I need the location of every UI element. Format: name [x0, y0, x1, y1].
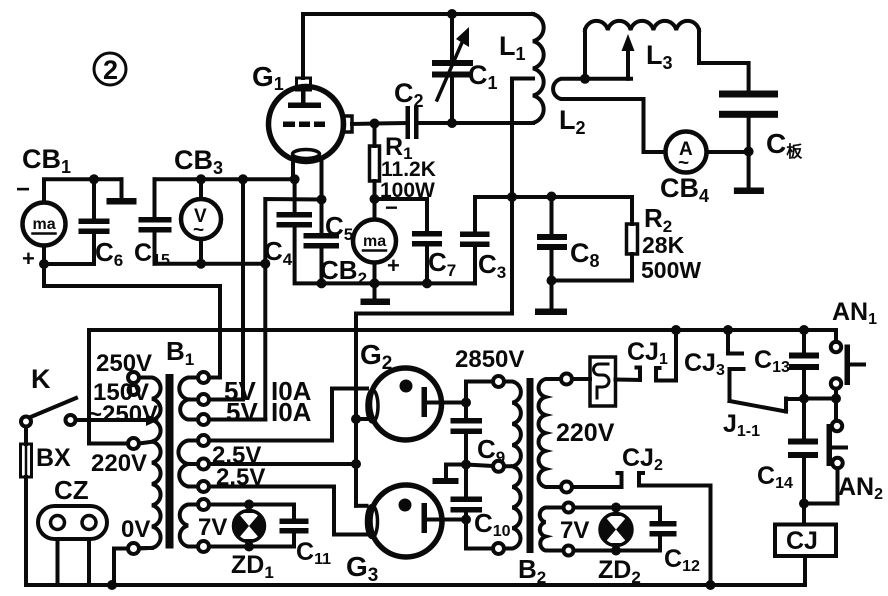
tube G3 cathode bar	[422, 503, 428, 533]
wire CJ2 from B2 primary bottom	[572, 473, 622, 487]
node CJ3 top bus	[723, 325, 733, 335]
tube G2 cathode bar	[422, 387, 428, 417]
tube G3 filament	[367, 506, 378, 538]
node C8 bottom	[547, 276, 557, 286]
wire L3 right end to plate cap	[699, 30, 749, 91]
tube G3 anode dot	[399, 499, 412, 512]
wire 5V bottom tap up	[209, 418, 265, 422]
fuse BX	[21, 427, 32, 586]
node C13 bottom	[799, 394, 809, 404]
capacitor C11	[280, 519, 309, 534]
node ZD2 top	[611, 503, 621, 513]
capacitor C4	[277, 179, 322, 283]
ground below plate cap	[734, 188, 764, 195]
wire tap bar	[585, 77, 631, 81]
wire HV top bus C3 to R2	[475, 195, 632, 199]
ground B2 mid	[433, 465, 467, 485]
wire filament feed to B1 5V mid tap	[241, 179, 245, 399]
button AN2	[804, 399, 846, 504]
contact CJ3	[728, 330, 744, 401]
svg-text:28K: 28K	[642, 232, 685, 258]
node ZD2 bottom	[611, 546, 621, 556]
node CJ2 bottom bus	[706, 580, 716, 590]
node plate cap bottom	[744, 147, 754, 157]
stabilizer fuse element	[572, 357, 640, 406]
node CJ1 top bus	[671, 325, 681, 335]
wire L1 tap HV feed	[356, 79, 533, 506]
lamp ZD1	[234, 505, 265, 547]
node ZD1 bottom	[244, 542, 254, 552]
wire C1 to L1 bottom	[452, 121, 533, 125]
contact CJ1	[637, 330, 677, 381]
svg-text:ma: ma	[33, 216, 56, 233]
node ZD1 top	[244, 500, 254, 510]
node junction C1 top	[447, 9, 457, 19]
tube G1 envelope	[269, 87, 344, 162]
wire CB3 top bus	[155, 177, 295, 181]
capacitor C15	[139, 179, 172, 263]
capacitor C-plate	[719, 91, 778, 118]
meter V CB3	[181, 179, 221, 263]
relay coil CJ	[775, 504, 836, 586]
wire 0V tap stub	[139, 546, 152, 550]
terminal 250V tap	[128, 372, 139, 383]
transformer B1 primary winding	[139, 378, 161, 549]
svg-text:250V: 250V	[96, 350, 152, 377]
transformer B1 secondary 7V winding	[180, 505, 198, 547]
svg-text:~: ~	[678, 153, 689, 174]
wire CB1 bottom	[44, 262, 94, 266]
capacitor C3	[460, 197, 490, 283]
wire G3 cathode out	[427, 518, 466, 522]
capacitor C8	[537, 197, 567, 281]
wire grid to node	[352, 122, 375, 127]
ground below C8	[535, 281, 567, 316]
figure number 2 badge	[94, 53, 126, 85]
svg-text:2850V: 2850V	[455, 346, 524, 373]
terminal 2.5V taps	[198, 435, 209, 446]
svg-text:2: 2	[103, 55, 118, 85]
wire B2 7V bottom to C12	[574, 537, 661, 551]
node G3 cathode junction	[461, 515, 471, 525]
node V meter bottom	[196, 259, 206, 269]
wire B2 7V top to C12	[574, 508, 661, 522]
arrow 250V adjustable tap	[146, 414, 159, 426]
node C7 bottom	[422, 278, 432, 288]
svg-text:ma: ma	[363, 233, 386, 250]
wire 5V top tap stub	[209, 376, 220, 380]
tube G1 base leads	[293, 158, 322, 200]
node B2 mid tap	[461, 460, 471, 470]
wire bottom AC bus	[26, 583, 805, 587]
wire 5V mid tap up	[209, 398, 243, 402]
capacitor C7	[412, 231, 442, 247]
terminal B2 primary taps	[561, 374, 572, 385]
inductor L3	[585, 21, 699, 30]
capacitor C9	[451, 403, 483, 465]
capacitor C6	[79, 179, 110, 264]
capacitor C12	[650, 521, 677, 537]
node R1 bottom	[370, 194, 380, 204]
terminal B2 HV taps	[493, 376, 504, 387]
terminal B2 7V taps	[564, 503, 574, 513]
svg-text:220V: 220V	[91, 450, 147, 477]
wire top: anode top-cap to tank	[303, 14, 533, 78]
wire 0V tap	[114, 549, 128, 586]
svg-text:~250V: ~250V	[88, 401, 158, 428]
wire 2.5V mid tap to HV node	[209, 462, 356, 466]
transformer B1 secondary 2.5V windings	[178, 441, 198, 487]
meter CB1	[23, 179, 122, 264]
svg-text:CZ: CZ	[54, 475, 89, 505]
node CB2 bottom	[370, 278, 380, 288]
node C5 top	[317, 195, 327, 205]
tube G1 top cap	[297, 78, 311, 90]
svg-text:CJ: CJ	[786, 527, 818, 555]
transformer B1 secondary 5V windings	[179, 378, 198, 420]
tube G1 grid dashes	[283, 122, 325, 128]
ground stub top right of CB1	[107, 179, 137, 204]
node CB1 bottom	[39, 259, 49, 269]
button AN1	[831, 330, 864, 399]
svg-text:11.2K: 11.2K	[381, 158, 436, 181]
inductor L2 single turn loop	[553, 79, 643, 152]
wire mid tap	[466, 465, 493, 467]
node C4 top / G1 base	[290, 174, 300, 184]
wire 2.5V top tap to G2 filament	[209, 389, 367, 441]
node G2 filament bottom	[351, 414, 361, 424]
svg-text:500W: 500W	[641, 257, 701, 283]
svg-text:7V: 7V	[198, 514, 227, 541]
wire R1 node to C7	[375, 199, 428, 231]
svg-text:220V: 220V	[556, 419, 615, 447]
node C1 bottom	[447, 118, 457, 128]
tube G2 filament	[367, 390, 378, 422]
capacitor C5	[304, 200, 340, 284]
wire AC left edge to 220V tap	[89, 330, 128, 444]
switch arm J1-1	[730, 399, 805, 412]
tube G1 grid side cap	[343, 116, 353, 132]
svg-text:−: −	[16, 176, 30, 203]
node 0V junction bottom	[107, 580, 117, 590]
node CB3 top filament feed	[238, 174, 248, 184]
svg-text:+: +	[387, 253, 400, 278]
wire G1 filament right to CB3 lower bus	[265, 199, 321, 420]
resistor R2	[552, 197, 638, 281]
terminal 0V tap	[128, 543, 139, 554]
switch K	[21, 398, 148, 427]
node C6 top	[89, 174, 99, 184]
node L3/L2 junction	[580, 74, 590, 84]
wire 220V tap stub	[139, 442, 152, 444]
transformer B2 HV secondary winding	[504, 382, 521, 549]
contact CJ2 right	[639, 473, 711, 585]
node HV vertical junction	[507, 192, 517, 202]
svg-text:7V: 7V	[560, 517, 589, 544]
capacitor C14	[788, 399, 818, 504]
wire CB1 to B1 5V top tap	[44, 264, 220, 378]
transformer B2 7V winding	[540, 508, 564, 551]
tube G3 envelope	[370, 485, 442, 557]
capacitor C13	[789, 330, 819, 399]
wire 7V top tap	[209, 505, 294, 519]
tube G2 anode dot	[400, 380, 413, 393]
node AN1 bottom junction	[831, 394, 841, 404]
transformer B2 core	[527, 378, 534, 553]
svg-text:I0A: I0A	[271, 397, 312, 427]
node C8 top	[547, 192, 557, 202]
wire node to C2	[375, 121, 407, 126]
ground below CB2	[361, 283, 391, 305]
wire G2 filament bottom stub	[356, 417, 367, 421]
transformer B1 core	[166, 374, 174, 549]
capacitor C2	[406, 106, 419, 139]
svg-text:+: +	[22, 246, 35, 271]
node CB3 bottom junction	[260, 259, 270, 269]
wire C13 bottom to AN1 bottom	[804, 397, 836, 401]
tube G1 anode bar	[288, 90, 321, 108]
node CB3 top V meter	[196, 174, 206, 184]
terminal 7V taps	[198, 499, 209, 510]
transformer B2 primary 220V winding	[539, 379, 561, 487]
wire L3 left end down	[583, 30, 587, 79]
capacitor C1 variable	[432, 14, 473, 123]
meter CB2	[353, 199, 396, 283]
node CJ coil top	[799, 499, 809, 509]
svg-text:0V: 0V	[121, 516, 150, 543]
terminal 5V taps	[198, 372, 209, 383]
node G2 cathode junction	[461, 398, 471, 408]
wire 2850V tap to G2 cathode	[466, 382, 493, 403]
wire CB2 bottom bus	[322, 281, 476, 285]
lamp ZD2	[600, 508, 632, 551]
wire G2 cathode out	[427, 401, 466, 405]
wire 7V bottom tap	[209, 534, 294, 547]
L3 slider arrow tap	[622, 34, 635, 79]
capacitor C10	[451, 465, 494, 549]
svg-text:BX: BX	[36, 444, 71, 472]
wire G3 filament top stub	[356, 504, 367, 508]
node C5 bottom	[317, 278, 327, 288]
svg-text:5V: 5V	[226, 397, 258, 427]
svg-text:K: K	[31, 364, 51, 394]
plug CZ	[38, 506, 107, 585]
terminal 220V tap	[128, 438, 139, 449]
node grid junction	[370, 119, 380, 129]
node C13 top bus	[799, 325, 809, 335]
wire C2 to C1 node	[419, 121, 453, 125]
tube G1 cathode ellipse	[293, 150, 320, 159]
inductor L1	[533, 14, 544, 123]
wire AC top bus	[89, 328, 836, 332]
tube G2 envelope	[370, 368, 442, 440]
resistor R1	[370, 124, 380, 200]
terminal 150V tap	[129, 385, 139, 395]
meter CB4 ammeter	[644, 132, 749, 175]
wire 2.5V bottom tap to G3 filament	[209, 487, 367, 535]
wire CB3 bottom bus	[155, 262, 266, 266]
node HV filament mid	[351, 459, 361, 469]
